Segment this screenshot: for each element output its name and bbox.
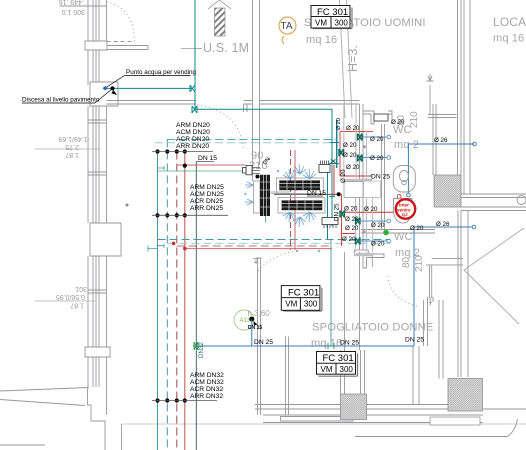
svg-text:Ø 26: Ø 26 <box>436 221 450 228</box>
trough black horizontal 2 <box>282 200 323 210</box>
svg-text:301: 301 <box>75 285 87 292</box>
svg-text:300 1.0: 300 1.0 <box>62 8 85 15</box>
svg-text:TA: TA <box>281 21 293 32</box>
svg-text:Ø 20: Ø 20 <box>364 206 378 213</box>
gray leader for U.S. 1M <box>181 48 202 50</box>
svg-text:1.87: 1.87 <box>70 302 84 309</box>
mirrored dim texts <box>56 0 90 309</box>
gray drain pipes <box>344 104 374 255</box>
svg-text:ACM DN25: ACM DN25 <box>190 191 224 198</box>
svg-text:DN32: DN32 <box>198 342 205 358</box>
svg-text:ARR DN25: ARR DN25 <box>190 205 223 212</box>
svg-text:1.87: 1.87 <box>65 151 79 158</box>
WC toilet mens <box>393 166 415 193</box>
room top wall band <box>107 101 197 105</box>
svg-text:Ø 20: Ø 20 <box>340 169 347 183</box>
red stamp <box>396 199 415 218</box>
svg-text:Ø 20: Ø 20 <box>391 119 405 126</box>
top door dotted swing <box>197 105 244 151</box>
green circle A13 <box>234 310 254 330</box>
svg-text:ARR DN32: ARR DN32 <box>190 393 223 400</box>
svg-text:Ø 20: Ø 20 <box>370 136 384 143</box>
FC301 box mid-left <box>281 286 322 311</box>
svg-text:SPOGLIATOIO DONNE: SPOGLIATOIO DONNE <box>312 322 434 334</box>
svg-text:A13: A13 <box>240 318 251 324</box>
teal main from top <box>107 0 339 240</box>
dim lines left <box>35 149 100 301</box>
shaft block bottom-center <box>341 394 367 420</box>
green stub below vertical trough <box>265 216 267 223</box>
svg-text:FC 301: FC 301 <box>317 7 348 18</box>
svg-text:Ø 20: Ø 20 <box>371 222 385 229</box>
svg-text:Ø 20: Ø 20 <box>345 225 359 232</box>
svg-text:2.75: 2.75 <box>65 143 79 150</box>
svg-text:ARM DN25: ARM DN25 <box>190 184 224 191</box>
blue lines <box>193 144 474 346</box>
svg-text:q.t: q.t <box>402 212 408 217</box>
svg-text:Ø 20: Ø 20 <box>342 236 356 243</box>
lines manifold to trough <box>252 168 260 174</box>
shaft block right-mid <box>434 175 461 207</box>
vertical pipe bundle <box>158 139 197 450</box>
valve symbols <box>190 85 197 113</box>
svg-text:mq 16: mq 16 <box>306 34 337 46</box>
horizontal teal dashed pair top <box>167 138 337 140</box>
svg-text:U.S. 1M: U.S. 1M <box>203 41 249 55</box>
svg-text:-1.49/1.69: -1.49/1.69 <box>58 135 90 142</box>
green valve markers right column <box>339 134 362 245</box>
womens wc region walls <box>424 300 428 346</box>
top-right wall group <box>458 0 471 194</box>
section line tilted (H=3) <box>340 0 353 118</box>
svg-text:VM: VM <box>315 19 327 28</box>
DN15 dark line to right <box>274 193 339 195</box>
svg-text:FC 301: FC 301 <box>288 287 319 298</box>
left exterior wall <box>88 0 107 85</box>
svg-text:H=3.: H=3. <box>346 45 360 72</box>
svg-text:ACR DN20: ACR DN20 <box>176 136 209 143</box>
svg-text:0.56/0.95: 0.56/0.95 <box>56 293 85 300</box>
horizontal dashed pair bottom <box>158 239 391 241</box>
svg-text:ACR DN32: ACR DN32 <box>190 386 223 393</box>
svg-text:300: 300 <box>304 300 318 309</box>
svg-text:.449 .16: .449 .16 <box>59 0 84 5</box>
bottom wall bands <box>255 405 526 410</box>
mens WC left wall pair <box>360 104 364 181</box>
svg-text:Ø 20: Ø 20 <box>371 241 385 248</box>
mens WC niche <box>363 111 374 124</box>
svg-text:ARR DN20: ARR DN20 <box>176 143 209 150</box>
WC toilet under stamp <box>394 199 413 224</box>
leader lines under label groups <box>152 152 228 401</box>
annotations top-left <box>22 69 197 104</box>
taps (light blue sprays) <box>245 158 320 252</box>
svg-text:ARM DN32: ARM DN32 <box>190 372 224 379</box>
svg-text:mq 16: mq 16 <box>311 338 342 350</box>
svg-text:DN 25: DN 25 <box>334 203 341 221</box>
bottom right arc + lines <box>355 419 518 437</box>
svg-text:FC 301: FC 301 <box>323 353 354 364</box>
horizontal red + teal to manifold <box>177 164 245 166</box>
svg-text:DN 15: DN 15 <box>198 155 217 162</box>
blue diamond at punto acqua <box>103 86 108 91</box>
top-left door dotted arc <box>107 2 135 41</box>
rotated small labels <box>334 118 348 221</box>
right room diagonals <box>464 228 524 324</box>
svg-text:DN 25: DN 25 <box>371 174 390 181</box>
donne room interior walls <box>257 258 262 415</box>
svg-text:Ø 20: Ø 20 <box>346 125 360 132</box>
wall between WCs <box>361 230 435 234</box>
green valve on DN32 line <box>194 342 198 350</box>
teal stub lines with circles right side <box>361 137 387 241</box>
drain symbol + stub top right <box>427 74 434 114</box>
svg-text:210: 210 <box>414 255 425 272</box>
svg-text:Ø 20: Ø 20 <box>336 118 342 130</box>
trough black horizontal 1 <box>279 180 320 190</box>
right vertical wall pair mid <box>458 211 468 378</box>
FC301 box bottom <box>317 352 358 377</box>
exit arrow hatched (U.S. 1M) <box>208 0 231 36</box>
svg-text:ACM DN32: ACM DN32 <box>190 379 224 386</box>
bottom-left walls <box>0 388 88 392</box>
teal tees on first line <box>158 166 165 248</box>
svg-text:Ø 20: Ø 20 <box>345 216 359 223</box>
svg-text:Ø 20: Ø 20 <box>346 164 360 171</box>
svg-text:DN 25: DN 25 <box>405 337 424 344</box>
mens WC right wall <box>433 104 436 175</box>
red pipe verticals center <box>291 120 394 250</box>
svg-text:300: 300 <box>340 365 354 374</box>
rotated gray texts <box>346 45 425 272</box>
TA circle <box>279 17 296 44</box>
counter outlines <box>254 178 326 213</box>
svg-text:ARM DN20: ARM DN20 <box>176 122 210 129</box>
svg-text:DN 25: DN 25 <box>254 339 273 346</box>
svg-text:ACM DN20: ACM DN20 <box>176 129 210 136</box>
svg-text:Ø 20: Ø 20 <box>344 206 358 213</box>
shaft block bottom-right <box>448 379 483 412</box>
svg-text:ACR DN25: ACR DN25 <box>190 198 223 205</box>
svg-text:210: 210 <box>409 111 420 128</box>
svg-text:LOCAL: LOCAL <box>493 15 526 29</box>
svg-text:mq 16: mq 16 <box>493 33 524 45</box>
dotted swing womens wc door <box>388 276 420 307</box>
FC301 box top <box>311 6 352 29</box>
right long wall: horizontal pairs <box>461 194 526 211</box>
svg-text:Ø 20: Ø 20 <box>410 225 424 232</box>
svg-text:DN 25: DN 25 <box>340 340 359 347</box>
svg-text:300: 300 <box>335 19 349 28</box>
svg-text:DN 15: DN 15 <box>248 325 262 331</box>
svg-text:Ø 26: Ø 26 <box>434 137 448 144</box>
svg-text:Ø 20: Ø 20 <box>343 152 357 159</box>
svg-text:Discesa al livello pavimento: Discesa al livello pavimento <box>22 97 100 104</box>
svg-text:WC: WC <box>394 231 413 243</box>
manifold symbols <box>243 114 389 225</box>
svg-text:Ø 20: Ø 20 <box>343 142 357 149</box>
svg-text:Ø 20: Ø 20 <box>370 155 384 162</box>
trough black vertical <box>260 175 270 216</box>
wc door leaf <box>344 182 363 198</box>
svg-text:VM: VM <box>321 365 333 374</box>
junction dots rows <box>155 149 187 402</box>
womens wc door jambs <box>363 254 384 268</box>
svg-text:Punto acqua per vending: Punto acqua per vending <box>126 69 197 76</box>
svg-text:h 3,60: h 3,60 <box>248 309 271 318</box>
top-center double wall down to trough counter <box>253 0 260 181</box>
svg-text:mq 2: mq 2 <box>394 139 419 151</box>
svg-text:VM: VM <box>285 300 297 309</box>
svg-text:80: 80 <box>401 256 412 268</box>
